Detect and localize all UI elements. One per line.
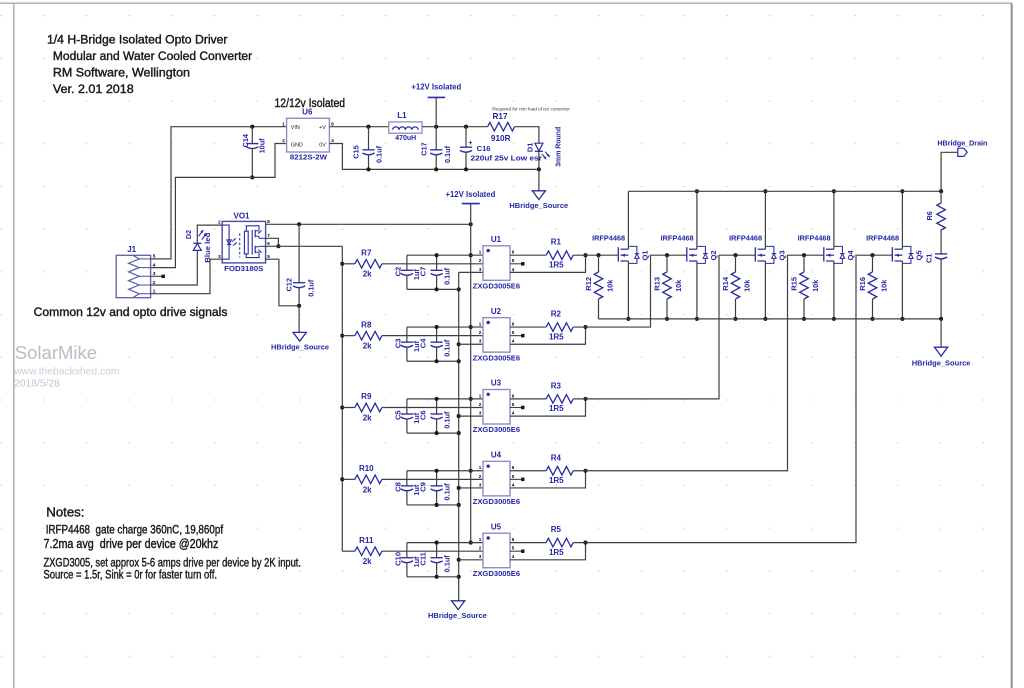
- svg-text:IRFP4468: IRFP4468: [866, 234, 900, 243]
- wire U5 pin5 stub: [510, 550, 521, 552]
- svg-text:2: 2: [479, 258, 482, 263]
- resistor R5 1R5: [546, 525, 573, 557]
- junction +12V at VO1.8: [469, 222, 473, 226]
- junction source bus Q5: [900, 317, 904, 321]
- wire C12 to ground: [298, 306, 300, 333]
- wire +12V rail U2 pin1: [407, 326, 483, 328]
- junction drive bus R10: [340, 477, 344, 481]
- resistor R1 1R5: [546, 238, 573, 270]
- wire R10 to U4 pin2: [382, 478, 483, 480]
- svg-text:D1: D1: [525, 143, 534, 152]
- svg-text:R10: R10: [359, 464, 374, 473]
- wire U4 pin5 stub: [510, 478, 521, 480]
- svg-text:HBridge_Drain: HBridge_Drain: [937, 138, 987, 147]
- wire R17 to D1: [515, 127, 539, 144]
- transistor Q3 IRFP4468: [729, 234, 786, 264]
- no-connect U5 pin5: [521, 549, 525, 553]
- junction source bus R15: [802, 317, 806, 321]
- wire gnd to U3 pin3: [459, 415, 483, 417]
- svg-text:C17: C17: [420, 142, 429, 155]
- junction source bus C1: [939, 317, 943, 321]
- wire VO1.5 to C12 bottom: [266, 259, 300, 306]
- junction source bus Q2: [695, 317, 699, 321]
- notes text block: [44, 505, 302, 582]
- svg-text:5: 5: [512, 474, 515, 479]
- svg-text:3: 3: [479, 482, 482, 487]
- svg-text:J1: J1: [127, 245, 136, 254]
- capacitor C16 220uf electrolytic: [460, 127, 542, 170]
- wire gnd to U2 pin3: [459, 343, 483, 345]
- note Required for min load of iso converter: [492, 106, 570, 112]
- svg-text:U4: U4: [491, 451, 502, 460]
- svg-text:C4: C4: [418, 338, 427, 348]
- wire gnd bus to HBridge_Source: [458, 272, 460, 600]
- svg-text:1R5: 1R5: [549, 476, 564, 485]
- wire Q2 drain: [696, 191, 698, 249]
- svg-text:0.1uf: 0.1uf: [442, 555, 451, 573]
- svg-text:3: 3: [479, 267, 482, 272]
- port HBridge_Drain: [937, 138, 987, 156]
- svg-text:10k: 10k: [811, 279, 820, 292]
- svg-text:1: 1: [479, 537, 482, 542]
- svg-text:IRFP4468 gate charge 360nC, 1: IRFP4468 gate charge 360nC, 19,860pf: [46, 523, 224, 537]
- svg-text:1: 1: [479, 393, 482, 398]
- wire +12V rail U3 pin1: [407, 398, 483, 400]
- wire Q3 source: [764, 261, 766, 319]
- wire J1.2 to D2 anode: [151, 250, 198, 285]
- svg-text:910R: 910R: [491, 134, 511, 143]
- junction pin4/R3 node: [583, 397, 587, 401]
- svg-text:HBridge_Source: HBridge_Source: [912, 359, 971, 368]
- svg-text:IRFP4468: IRFP4468: [729, 234, 763, 243]
- junction drive bus R8: [340, 334, 344, 338]
- svg-text:10k: 10k: [742, 279, 751, 292]
- svg-text:C15: C15: [352, 145, 361, 158]
- capacitor C6 0.1uf: [418, 399, 451, 433]
- ground HBridge_Source (drivers): [428, 601, 487, 620]
- svg-text:C1: C1: [924, 254, 933, 263]
- wire J1.1 to VO1.3: [151, 259, 223, 294]
- gate driver U5 ZXGD3005E6: [473, 522, 520, 577]
- wire R2 to Q2 gate riser: [573, 255, 687, 327]
- junction C7 top: [435, 253, 439, 257]
- capacitor C17 0.1uf: [420, 127, 452, 170]
- junction pin4/R1 node: [583, 253, 587, 257]
- wire U6 0V gnd rail: [329, 144, 539, 170]
- svg-text:Q4: Q4: [846, 250, 855, 261]
- svg-text:0.1uf: 0.1uf: [307, 279, 316, 297]
- svg-text:Q2: Q2: [709, 250, 718, 260]
- junction drive bus R9: [340, 405, 344, 409]
- junction source bus Q3: [763, 317, 767, 321]
- junction gnd bus rail 5: [457, 575, 461, 579]
- svg-text:2: 2: [218, 220, 221, 225]
- svg-text:R13: R13: [652, 277, 661, 291]
- svg-text:0V: 0V: [319, 142, 326, 148]
- svg-text:Common 12v and opto drive sign: Common 12v and opto drive signals: [34, 305, 228, 319]
- svg-text:R17: R17: [492, 112, 507, 121]
- svg-text:10k: 10k: [605, 279, 614, 292]
- wire U5 pin4 riser: [510, 543, 586, 560]
- svg-text:U2: U2: [491, 307, 502, 316]
- wire U3 pin6 to R3: [510, 398, 546, 400]
- wire Q4 drain: [833, 191, 835, 249]
- junction source bus R14: [733, 317, 737, 321]
- wire U1 pin5 stub: [510, 263, 521, 265]
- svg-text:5: 5: [512, 402, 515, 407]
- svg-text:R14: R14: [721, 276, 730, 291]
- resistor R9 2k: [355, 392, 382, 422]
- wire bus to R8: [342, 335, 355, 337]
- no-connect J1.3: [161, 275, 165, 279]
- resistor R3 1R5: [546, 381, 573, 413]
- svg-text:Source = 1.5r, Sink = 0r for f: Source = 1.5r, Sink = 0r for faster turn…: [44, 568, 218, 582]
- junction gnd bus rail 1: [457, 287, 461, 291]
- svg-text:0.1uf: 0.1uf: [443, 145, 452, 163]
- wire U4 pin6 to R4: [510, 470, 546, 472]
- resistor R17 910R: [488, 112, 515, 143]
- svg-text:8: 8: [267, 219, 270, 224]
- svg-text:L1: L1: [397, 111, 407, 120]
- junction R16 top: [870, 253, 874, 257]
- svg-text:5: 5: [512, 546, 515, 551]
- wire R5 to Q5 gate riser: [573, 255, 892, 542]
- svg-text:5: 5: [153, 254, 156, 260]
- capacitor C2 1uf: [394, 255, 422, 289]
- wire bus to R11: [342, 550, 355, 552]
- svg-text:Ver. 2.01 2018: Ver. 2.01 2018: [53, 82, 134, 96]
- wire R4 to Q4 gate riser: [573, 255, 824, 471]
- svg-text:R2: R2: [551, 310, 562, 319]
- svg-text:470uH: 470uH: [395, 133, 416, 142]
- svg-text:ZXGD3005E6: ZXGD3005E6: [473, 497, 520, 506]
- wire drive signal bus: [341, 246, 343, 551]
- svg-text:C8: C8: [394, 482, 403, 492]
- wire VO1.8 to +12V rail: [266, 223, 471, 225]
- capacitor C5 1uf: [394, 399, 422, 433]
- svg-text:GND: GND: [291, 142, 303, 148]
- wire Q2 source: [696, 261, 698, 319]
- wire J1.3 stub: [151, 275, 162, 277]
- junction gnd bus pin3 U4: [457, 486, 461, 490]
- junction VO1.7/VO1.6: [276, 244, 280, 248]
- svg-text:0.1uf: 0.1uf: [375, 145, 384, 163]
- svg-text:1R5: 1R5: [549, 548, 564, 557]
- wire R3 to Q3 gate riser: [573, 255, 755, 399]
- wire Q5 source: [901, 261, 903, 319]
- wire drain bus: [628, 190, 941, 192]
- wire R8 to U2 pin2: [382, 335, 483, 337]
- svg-text:R12: R12: [584, 277, 593, 291]
- capacitor C3 1uf: [394, 327, 422, 361]
- svg-text:6: 6: [331, 121, 334, 126]
- title text block: [47, 33, 252, 96]
- junction C6 top: [435, 397, 439, 401]
- junction source bus Q4: [832, 317, 836, 321]
- junction C12 bottom: [297, 304, 301, 308]
- wire R7 to U1 pin2: [382, 263, 483, 265]
- wire bus to R10: [342, 478, 355, 480]
- wire gnd to U1 pin3: [459, 271, 483, 273]
- svg-text:C11: C11: [418, 551, 427, 565]
- svg-text:C12: C12: [284, 278, 293, 291]
- capacitor C15 0.1uf: [352, 127, 384, 170]
- wire D1 cathode to gnd node: [538, 151, 540, 169]
- ground HBridge_Source (opto): [271, 332, 330, 351]
- svg-text:R5: R5: [551, 525, 562, 534]
- svg-text:Q3: Q3: [777, 250, 786, 260]
- svg-text:U3: U3: [491, 379, 502, 388]
- junction drain bus Q2: [695, 189, 699, 193]
- svg-text:C10: C10: [394, 552, 403, 566]
- svg-text:HBridge_Source: HBridge_Source: [271, 342, 330, 351]
- junction drain bus Q4: [832, 189, 836, 193]
- wire U1 pin6 to R1: [510, 254, 546, 256]
- junction C15 bottom: [366, 167, 370, 171]
- resistor R14 10k: [721, 255, 752, 319]
- svg-text:2: 2: [282, 138, 285, 143]
- junction C4 bottom: [435, 359, 439, 363]
- junction C9 top: [435, 469, 439, 473]
- power +12V Isolated rail (drivers): [445, 189, 495, 225]
- optocoupler VO1 FOD3180S: [218, 212, 270, 274]
- junction gnd bus pin3 U3: [457, 414, 461, 418]
- svg-text:C6: C6: [418, 410, 427, 420]
- dc-dc converter U6 8212S-2W: [282, 108, 334, 162]
- wire +12V rail U1 pin1: [407, 254, 483, 256]
- junction C16 top: [464, 125, 468, 129]
- svg-text:ZXGD3005E6: ZXGD3005E6: [473, 353, 520, 362]
- svg-text:2: 2: [479, 330, 482, 335]
- svg-text:4: 4: [512, 267, 515, 272]
- svg-text:7.2ma avg drive per device @2: 7.2ma avg drive per device @20khz: [44, 537, 219, 551]
- junction C14 top: [250, 125, 254, 129]
- resistor R11 2k: [355, 536, 382, 566]
- svg-text:0.1uf: 0.1uf: [442, 267, 451, 285]
- junction source bus Q1: [626, 317, 630, 321]
- wire +12V bus: [470, 224, 472, 542]
- svg-text:Modular and Water Cooled Conve: Modular and Water Cooled Converter: [53, 49, 252, 63]
- svg-text:R6: R6: [925, 211, 934, 220]
- svg-text:10k: 10k: [879, 279, 888, 292]
- power +12V Isolated rail (top): [411, 82, 461, 127]
- svg-text:U5: U5: [491, 522, 502, 531]
- svg-text:1: 1: [479, 321, 482, 326]
- junction R14 top: [733, 253, 737, 257]
- svg-text:6: 6: [267, 241, 270, 246]
- svg-text:2: 2: [479, 474, 482, 479]
- gate driver U3 ZXGD3005E6: [473, 379, 520, 434]
- resistor R7 2k: [355, 248, 382, 278]
- gate driver U4 ZXGD3005E6: [473, 451, 520, 506]
- svg-text:7: 7: [267, 233, 270, 238]
- svg-text:0.1uf: 0.1uf: [442, 483, 451, 501]
- wire gnd to U5 pin3: [459, 559, 483, 561]
- junction C14 bottom: [250, 175, 254, 179]
- svg-text:U6: U6: [302, 108, 313, 117]
- junction +12V bus stage 3: [469, 397, 473, 401]
- led D1 3mm Round: [525, 127, 562, 167]
- resistor R13 10k: [652, 255, 683, 319]
- junction +12V bus stage 5: [469, 541, 473, 545]
- svg-text:4: 4: [512, 411, 515, 416]
- resistor R4 1R5: [546, 453, 573, 485]
- resistor R2 1R5: [546, 310, 573, 342]
- junction gnd bus rail 2: [457, 359, 461, 363]
- svg-text:8212S-2W: 8212S-2W: [290, 153, 328, 162]
- inductor L1 470uH: [389, 111, 422, 142]
- svg-text:6: 6: [512, 465, 515, 470]
- svg-text:IRFP4468: IRFP4468: [661, 234, 695, 243]
- wire Q5 drain: [901, 191, 903, 249]
- wire U2 pin4 riser: [510, 327, 586, 344]
- junction gnd bus pin3 U2: [457, 342, 461, 346]
- svg-text:1: 1: [282, 121, 285, 126]
- junction C11 top: [435, 541, 439, 545]
- junction R15 top: [802, 253, 806, 257]
- svg-text:R9: R9: [361, 392, 372, 401]
- svg-text:C7: C7: [418, 267, 427, 277]
- watermark SolarMike: [13, 342, 119, 390]
- label Common 12v and opto drive signals: [34, 305, 228, 319]
- svg-text:2k: 2k: [363, 270, 372, 279]
- svg-text:C2: C2: [394, 267, 403, 277]
- capacitor C7 0.1uf: [418, 255, 451, 289]
- svg-text:3: 3: [479, 411, 482, 416]
- svg-text:5: 5: [267, 254, 270, 259]
- svg-text:ZXGD3005E6: ZXGD3005E6: [473, 569, 520, 578]
- wire Q1 source: [627, 261, 629, 319]
- wire Q4 source: [833, 261, 835, 319]
- svg-text:R16: R16: [858, 277, 867, 291]
- junction gnd bus rail 3: [457, 431, 461, 435]
- wire D2 cathode to VO1.2: [197, 225, 222, 243]
- junction gnd bus pin3 U5: [457, 558, 461, 562]
- svg-text:10uf: 10uf: [257, 138, 266, 154]
- svg-text:R3: R3: [551, 381, 562, 390]
- resistor R16 10k: [858, 255, 889, 319]
- wire U2 pin5 stub: [510, 335, 521, 337]
- svg-text:10k: 10k: [674, 279, 683, 292]
- no-connect U3 pin5: [521, 406, 525, 410]
- wire gate node Q1: [573, 254, 618, 256]
- wire gnd rail stage 1: [407, 288, 459, 290]
- wire VO1.7 jog: [266, 238, 279, 246]
- junction C11 bottom: [435, 575, 439, 579]
- svg-text:R15: R15: [789, 276, 798, 291]
- svg-text:1: 1: [479, 465, 482, 470]
- svg-text:ZXGD3005E6: ZXGD3005E6: [473, 281, 520, 290]
- junction +12V rail / C17: [434, 125, 438, 129]
- svg-text:5: 5: [512, 330, 515, 335]
- wire gnd rail stage 3: [407, 432, 459, 434]
- svg-text:6: 6: [512, 393, 515, 398]
- no-connect U1 pin5: [521, 262, 525, 266]
- svg-text:+12V Isolated: +12V Isolated: [445, 189, 495, 199]
- svg-text:R8: R8: [361, 320, 372, 329]
- svg-text:R11: R11: [359, 536, 374, 545]
- wire Q1 drain: [627, 191, 629, 249]
- wire J1.5 to U6 VIN (+12v in): [151, 127, 287, 259]
- ground HBridge_Source (snubber): [912, 347, 971, 367]
- svg-text:2018/5/28: 2018/5/28: [14, 379, 60, 390]
- resistor R12 10k: [584, 255, 615, 319]
- svg-text:Notes:: Notes:: [46, 505, 84, 520]
- svg-text:R1: R1: [551, 238, 562, 247]
- resistor R10 2k: [355, 464, 382, 494]
- svg-text:1: 1: [479, 250, 482, 255]
- svg-text:5: 5: [512, 258, 515, 263]
- svg-text:0.1uf: 0.1uf: [442, 411, 451, 429]
- junction D1 gnd: [537, 167, 541, 171]
- junction C6 bottom: [435, 431, 439, 435]
- no-connect U4 pin5: [521, 478, 525, 482]
- svg-text:4: 4: [512, 554, 515, 559]
- svg-text:3: 3: [479, 339, 482, 344]
- capacitor C11 0.1uf: [418, 543, 451, 577]
- junction pin4/R2 node: [583, 325, 587, 329]
- svg-text:0.1uf: 0.1uf: [442, 339, 451, 357]
- svg-text:4: 4: [512, 339, 515, 344]
- resistor R6: [925, 191, 945, 251]
- svg-text:+: +: [468, 138, 472, 147]
- svg-text:3: 3: [479, 554, 482, 559]
- junction +12V bus stage 1: [469, 253, 473, 257]
- junction drain bus Q3: [763, 189, 767, 193]
- svg-text:2: 2: [479, 546, 482, 551]
- svg-text:Q1: Q1: [640, 250, 649, 261]
- wire U4 pin4 riser: [510, 471, 586, 488]
- svg-text:6: 6: [512, 537, 515, 542]
- wire bus to R7: [342, 263, 355, 265]
- transistor Q4 IRFP4468: [798, 234, 855, 264]
- wire VO1.6 drive signal: [266, 245, 343, 247]
- capacitor C4 0.1uf: [418, 327, 451, 361]
- junction C16 bottom: [464, 167, 468, 171]
- svg-text:C3: C3: [394, 338, 403, 348]
- svg-text:C5: C5: [394, 410, 403, 420]
- junction drain bus R6: [939, 189, 943, 193]
- wire gnd rail stage 5: [407, 576, 459, 578]
- wire to HBridge_Drain port: [941, 152, 958, 191]
- svg-text:6: 6: [512, 250, 515, 255]
- wire R9 to U3 pin2: [382, 407, 483, 409]
- wire gnd to U4 pin3: [459, 487, 483, 489]
- svg-text:4: 4: [512, 482, 515, 487]
- wire bus to R9: [342, 407, 355, 409]
- wire R11 to U5 pin2: [382, 550, 483, 552]
- junction R12 top: [596, 253, 600, 257]
- svg-text:4: 4: [331, 138, 334, 143]
- capacitor C8 1uf: [394, 471, 422, 505]
- svg-text:220uf 25v Low esr: 220uf 25v Low esr: [471, 153, 543, 162]
- wire source bus: [599, 318, 942, 320]
- svg-text:HBridge_Source: HBridge_Source: [428, 611, 487, 620]
- svg-text:1R5: 1R5: [549, 404, 564, 413]
- svg-text:1R5: 1R5: [549, 260, 564, 269]
- svg-text:R7: R7: [361, 248, 372, 257]
- svg-text:2k: 2k: [363, 413, 372, 422]
- wire U5 pin6 to R5: [510, 542, 546, 544]
- svg-text:1/4 H-Bridge Isolated Opto Dri: 1/4 H-Bridge Isolated Opto Driver: [47, 33, 228, 47]
- transistor Q2 IRFP4468: [661, 234, 718, 264]
- svg-text:4: 4: [153, 262, 156, 268]
- svg-text:FOD3180S: FOD3180S: [224, 264, 263, 273]
- capacitor C10 1uf: [394, 543, 422, 577]
- wire Q3 drain: [764, 191, 766, 249]
- svg-text:VIN: VIN: [291, 125, 300, 131]
- svg-text:SolarMike: SolarMike: [15, 342, 97, 363]
